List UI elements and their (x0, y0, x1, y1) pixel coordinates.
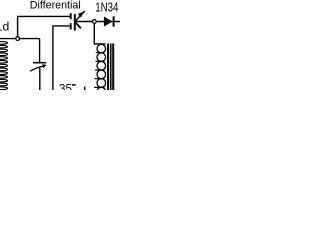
svg-text:35: 35 (59, 82, 72, 90)
svg-text:Ld: Ld (0, 19, 9, 33)
svg-text:1N34: 1N34 (95, 1, 119, 15)
svg-text:Differential: Differential (30, 0, 81, 11)
